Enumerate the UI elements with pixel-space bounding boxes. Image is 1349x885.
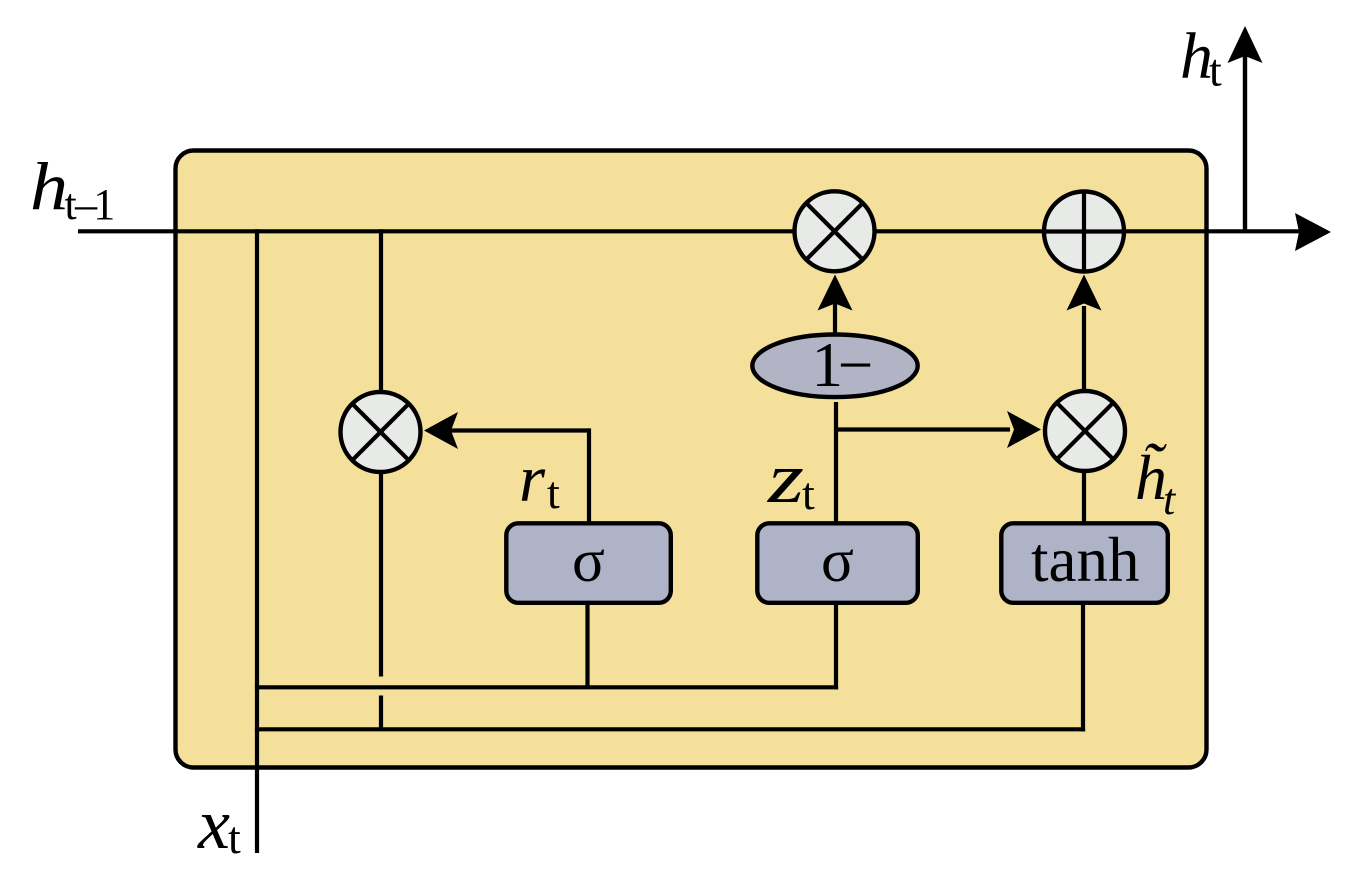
wire r gate feedback horizontal <box>450 428 589 432</box>
svg-text:r: r <box>519 442 546 516</box>
GRU cell body (yellow rounded rectangle) <box>176 151 1207 768</box>
wire right multiplier bottom to tanh <box>1082 471 1086 523</box>
arrowhead into right multiplier <box>1007 411 1041 448</box>
wire sigma2 bottom to wire1 <box>834 603 838 689</box>
label h-tilde_t <box>1135 442 1177 524</box>
svg-text:σ: σ <box>572 528 605 595</box>
arrowhead into adder <box>1067 275 1102 311</box>
candidate tanh box <box>1001 523 1168 603</box>
adder circle <box>1044 192 1124 272</box>
svg-text:t: t <box>1209 45 1222 96</box>
label r_t <box>519 442 560 518</box>
label h_t-1 <box>30 148 115 229</box>
svg-text:x: x <box>197 784 230 864</box>
label z_t <box>767 438 815 519</box>
svg-text:h: h <box>30 148 68 224</box>
svg-text:σ: σ <box>821 528 854 595</box>
wire sigma1 bottom to wire1 <box>585 603 589 689</box>
wire sigma2 top to one-minus ellipse <box>834 402 838 523</box>
wire1 (x_t to update gate sigma2) <box>255 685 838 689</box>
one-minus ellipse <box>752 335 917 398</box>
svg-text:t: t <box>1163 475 1177 524</box>
wire2 (x_t to tanh) <box>255 727 1085 731</box>
wire h_t vertical output <box>1243 55 1247 231</box>
reset gate sigma1 box <box>506 523 671 603</box>
wire left multiplier down (upper part before hop) <box>379 470 383 677</box>
label x_t <box>197 784 241 864</box>
arrowhead into left multiplier <box>424 412 458 449</box>
wire one-minus ellipse to top multiplier <box>833 303 837 335</box>
svg-text:t: t <box>228 812 241 863</box>
wire left multiplier down (below hop to wire2) <box>379 696 383 732</box>
svg-text:−: − <box>838 330 874 400</box>
svg-text:z: z <box>767 438 804 518</box>
svg-text:t: t <box>802 468 815 519</box>
wire x_t vertical input <box>255 229 259 853</box>
wire z branch to right multiplier <box>836 427 1010 431</box>
svg-text:tanh: tanh <box>1031 525 1139 595</box>
svg-text:t: t <box>547 467 560 518</box>
right multiplier circle <box>1045 391 1125 471</box>
arrowhead output right <box>1295 213 1331 251</box>
svg-text:1: 1 <box>93 180 115 229</box>
top multiplier circle <box>795 191 875 271</box>
label h_t (output top) <box>1180 20 1222 96</box>
wire vertical h branch to left multiplier <box>379 229 383 395</box>
arrowhead into top multiplier <box>818 275 853 311</box>
wire r gate vertical (sigma1 top to feedback) <box>587 428 591 523</box>
left multiplier circle <box>341 392 421 472</box>
wire tanh bottom to wire2 <box>1081 603 1085 731</box>
update gate sigma2 box <box>757 523 918 603</box>
wire right multiplier to adder <box>1082 306 1086 391</box>
arrowhead h_t up <box>1228 26 1263 63</box>
wire h-line (h_t-1 input to h_t output) <box>78 229 1303 233</box>
